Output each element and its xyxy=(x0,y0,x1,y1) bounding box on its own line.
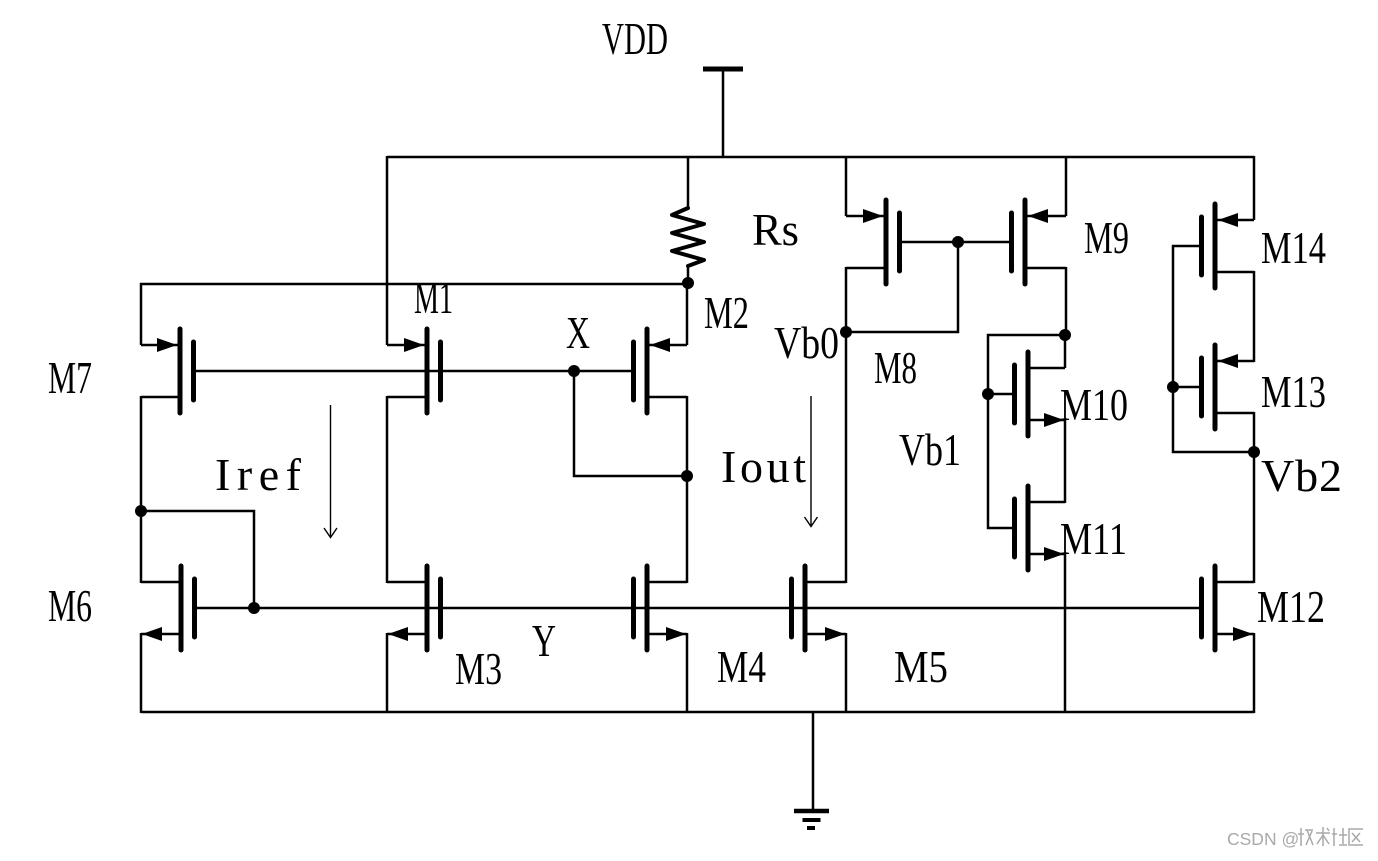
wire top mirror gate line xyxy=(194,370,634,373)
node gate rail tap junction xyxy=(248,602,260,614)
wire Vb0 to M5 drain xyxy=(845,332,848,583)
wire M13 gate stub xyxy=(1173,386,1202,389)
wire M14-M13 link xyxy=(1253,271,1256,362)
node M8 gate junction xyxy=(952,236,964,248)
svg-text:M3: M3 xyxy=(455,643,502,694)
svg-text:Y: Y xyxy=(532,615,556,666)
transistor M5 xyxy=(792,566,847,650)
wire M10 gate stub xyxy=(988,393,1015,396)
transistor M10 xyxy=(1015,352,1066,436)
node M9 drain junction (Vb1) xyxy=(1059,329,1071,341)
current arrow Iref xyxy=(324,405,337,538)
node Vb0 junction xyxy=(840,326,852,338)
svg-text:M13: M13 xyxy=(1261,366,1326,417)
wire X to M2 drain xyxy=(574,371,687,476)
node Vb2 junction xyxy=(1248,446,1260,458)
wire M14 source drop xyxy=(1253,156,1256,220)
wire Vb1 gate run xyxy=(988,335,1065,528)
wire M8 source drop xyxy=(845,156,848,216)
wire M7-M6 drain column xyxy=(140,396,143,583)
transistor M12 xyxy=(1202,566,1255,650)
svg-text:CSDN @: CSDN @ xyxy=(1227,829,1299,849)
svg-text:M7: M7 xyxy=(48,352,92,403)
transistor M11 xyxy=(1015,486,1066,570)
wire M3 source drop xyxy=(386,633,389,713)
transistor M2 xyxy=(634,329,688,413)
transistor M13 xyxy=(1202,345,1255,429)
wire M8-M9 gate line xyxy=(900,241,1012,244)
transistor M1 xyxy=(387,329,441,413)
svg-text:M4: M4 xyxy=(717,641,766,692)
ground xyxy=(794,712,829,828)
watermark CSDN xyxy=(1227,827,1363,849)
svg-text:Rs: Rs xyxy=(752,204,799,255)
wire M12 source drop xyxy=(1253,633,1256,713)
node M13 gate tap junction xyxy=(1167,381,1179,393)
wire M6 source drop xyxy=(140,633,143,713)
wire M2-M4 drain column xyxy=(686,396,689,583)
transistor M4 xyxy=(634,566,688,650)
wire bottom mirror gate rail Y xyxy=(195,607,1202,610)
node X junction xyxy=(568,365,580,377)
svg-text:M10: M10 xyxy=(1060,379,1128,430)
svg-text:M11: M11 xyxy=(1060,513,1127,564)
transistor M9 xyxy=(1012,200,1067,284)
wire M10 drain link xyxy=(1064,334,1067,368)
svg-text:M14: M14 xyxy=(1261,222,1326,273)
transistor M3 xyxy=(387,566,441,650)
wire ground rail xyxy=(141,711,1254,714)
wire Rs bottom xyxy=(687,265,690,284)
svg-text:Vb0: Vb0 xyxy=(774,317,839,368)
svg-text:X: X xyxy=(566,307,590,358)
current arrow Iout xyxy=(805,396,818,527)
svg-text:M8: M8 xyxy=(874,342,917,393)
wire M13 drain drop xyxy=(1253,412,1256,453)
wire M9 drain drop xyxy=(1065,267,1068,336)
svg-text:VDD: VDD xyxy=(602,13,668,64)
svg-text:M5: M5 xyxy=(894,641,948,692)
wire M4 source drop xyxy=(686,633,689,713)
svg-text:Vb1: Vb1 xyxy=(899,424,961,475)
wire M1 source drop from rail xyxy=(386,156,389,345)
svg-text:M12: M12 xyxy=(1257,581,1325,632)
transistor M7 xyxy=(141,329,194,413)
svg-text:M9: M9 xyxy=(1084,212,1129,263)
node Rs-bottom junction xyxy=(682,277,694,289)
wire Vb2 to M12 drain xyxy=(1253,452,1256,583)
wire Rs top xyxy=(687,157,690,209)
power VDD symbol xyxy=(703,69,743,157)
wire M5 source drop xyxy=(845,633,848,713)
wire M8 diode tie xyxy=(846,242,958,332)
resistor Rs xyxy=(672,208,704,266)
svg-text:M6: M6 xyxy=(48,580,92,631)
transistor M14 xyxy=(1202,204,1255,288)
svg-text:Vb2: Vb2 xyxy=(1261,450,1342,501)
transistor M6 xyxy=(141,566,195,650)
wire M14-M13 gate run xyxy=(1173,246,1254,452)
transistor M8 xyxy=(846,200,900,284)
node M7 drain junction xyxy=(135,505,147,517)
node M2 drain junction xyxy=(681,470,693,482)
wire node A horizontal (Rs bottom to M7 source) xyxy=(140,283,688,286)
wire M2 source drop xyxy=(686,283,689,345)
svg-text:M1: M1 xyxy=(414,272,453,323)
svg-text:Iref: Iref xyxy=(215,449,302,500)
wire M1-M3 drain column xyxy=(386,396,389,583)
wire M10-M11 link xyxy=(1064,419,1067,503)
wire M9 source drop xyxy=(1065,156,1068,216)
wire M11 source drop xyxy=(1064,553,1067,713)
node M10 gate tap junction xyxy=(982,388,994,400)
wire VDD rail xyxy=(387,156,1254,159)
svg-text:M2: M2 xyxy=(704,287,749,338)
wire M6 diode tie xyxy=(141,511,254,608)
wire M7 source drop xyxy=(140,283,143,345)
wire M8 drain drop xyxy=(845,267,848,333)
